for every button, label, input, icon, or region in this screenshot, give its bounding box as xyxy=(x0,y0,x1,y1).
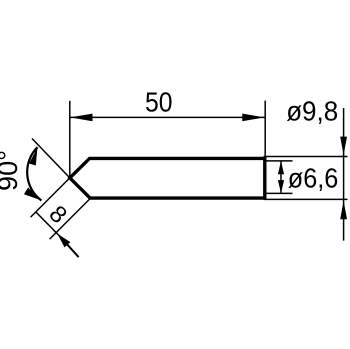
arrow at arc lower end xyxy=(24,188,41,201)
wire: 50-dim left extension line xyxy=(69,101,71,178)
svg-text:50: 50 xyxy=(145,86,173,117)
wire: 90-deg upper extension line xyxy=(32,139,70,178)
svg-text:ø9,8: ø9,8 xyxy=(286,95,338,126)
svg-text:ø6,6: ø6,6 xyxy=(288,163,339,194)
wire: dia 6,6 top extension line xyxy=(266,160,293,162)
wire: 8-dim second extension line xyxy=(50,198,91,239)
wire: dia 9,8 dimension line xyxy=(343,108,345,241)
wire: 8-dim arrow tail xyxy=(67,244,79,257)
wire: dia 6,6 bottom extension line xyxy=(266,192,293,194)
arrow up at dia 9,8 bottom xyxy=(340,201,347,220)
wire: 50-dim right extension line xyxy=(264,101,266,157)
arrow left of 50 dim xyxy=(70,114,93,122)
wire: 90-deg lower extension line (shared with 8-dim) xyxy=(31,178,70,217)
arrow right of 50 dim xyxy=(242,114,264,122)
wire: dia 6,6 dimension line xyxy=(280,162,282,193)
svg-text:90°: 90° xyxy=(0,150,23,191)
arrow down at dia 9,8 top xyxy=(340,137,347,156)
90-deg dimension arc xyxy=(27,147,41,200)
wire: dia 9,8 bottom extension line xyxy=(264,198,348,200)
arrow up at dia 6,6 top xyxy=(278,161,284,174)
arrow at arc upper end xyxy=(29,147,37,165)
wire: 50 dimension line xyxy=(70,116,265,118)
arrow down at dia 6,6 bottom xyxy=(278,180,284,193)
wire: dia 9,8 top extension line xyxy=(264,156,348,158)
soldering tip body outline xyxy=(70,158,265,198)
arrow at 8-dim pointing up-left xyxy=(57,234,70,248)
wire: 8 dimension line xyxy=(36,212,62,239)
